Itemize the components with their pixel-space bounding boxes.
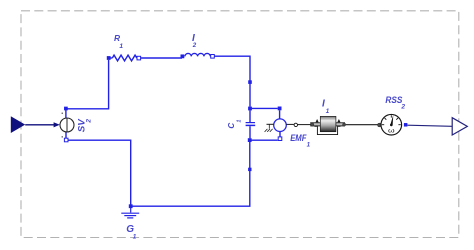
svg-text:1: 1 (119, 43, 123, 50)
svg-text:1: 1 (236, 119, 242, 122)
svg-text:ω: ω (388, 128, 395, 135)
svg-text:2: 2 (85, 119, 92, 124)
svg-text:1: 1 (307, 141, 311, 148)
svg-text:2: 2 (192, 42, 197, 49)
svg-text:1: 1 (326, 108, 330, 115)
svg-text:EMF: EMF (290, 132, 306, 143)
svg-text:2: 2 (400, 103, 405, 110)
svg-text:C: C (227, 123, 236, 129)
svg-text:RSS: RSS (385, 95, 402, 105)
svg-text:I: I (322, 99, 325, 110)
svg-text:1: 1 (133, 234, 137, 241)
svg-text:R: R (114, 33, 120, 43)
